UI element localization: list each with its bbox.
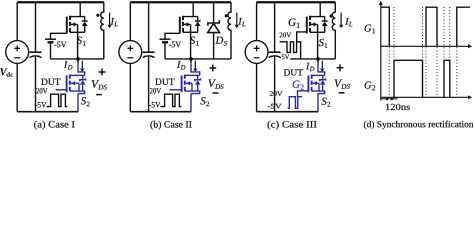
wire Vdc drain branch (a) [16,2,18,111]
label IL (a) [111,18,118,26]
wire DUT source to rail (c) [317,94,319,112]
gate pulse waveform DUT (b) [161,94,182,106]
capacitor C (b) [143,51,155,53]
label S2 (b) [200,97,209,106]
label -5V battery (a) [54,42,66,48]
label S1 (c) [319,39,328,48]
caption (a) [34,121,74,130]
wire S1 gate lead (a) [51,33,67,39]
waveform G1 trace (d) [381,7,470,46]
gate pulse waveform DUT (a) [47,94,68,106]
label VDS (a) [92,80,107,89]
label VDS (c) [335,79,350,88]
S1 body arrow (b) [184,24,191,59]
DUT source wire (c) [312,91,325,94]
wire capacitor branch (b) [148,2,150,111]
caption (b) [150,121,191,130]
axis G2 baseline (d) [381,96,469,98]
label 20V (b) [150,88,161,93]
transistor S1 channel bars (b) [182,16,184,33]
axis G1 baseline (d) [381,45,469,47]
voltage source Vdc (a) [6,41,29,64]
arrow IL current (c) [340,13,342,25]
inductor L (b) [228,2,231,59]
axis vertical (d) [380,4,382,100]
arrow ID current (b) [194,61,196,69]
label G2 (d) [365,82,376,91]
wire DUT drain feed (a) [77,59,79,63]
label -5V gate (a) [35,102,46,107]
wire battery to source (a) [50,43,52,59]
diode S1 body (b) [197,17,199,21]
S1 drain wire (b) [183,2,198,16]
wire capacitor branch (a) [35,2,37,111]
transistor S1 gate bar (a) [66,17,68,34]
wire DUT drain feed (b) [190,59,192,63]
wire Vdc drain branch (b) [129,2,131,111]
label -5V G2 (c) [267,104,281,109]
S1 body arrow (a) [71,24,78,59]
inductor polarity dot (b) [225,14,228,17]
label ID (b) [177,61,185,69]
transistor S1 gate bar (c) [306,17,308,34]
gate pulse waveform G1 (c) [280,42,301,59]
inductor polarity dot (c) [330,14,333,17]
label 20V G2 (c) [270,91,282,96]
transistor S1 channel bars (a) [69,16,71,33]
label -5V battery (b) [169,42,181,48]
label -5V G1 (c) [280,55,290,60]
wire G2 to gate (c) [298,91,309,97]
label 120ns (d) [386,104,410,110]
wire DUT source to rail (b) [190,94,192,112]
DUT body arrow (c) [313,83,319,91]
wire gate lead DUT (b) [170,89,182,91]
voltage source Vdc (c) [245,41,268,64]
transistor DUT S2 channel bars (c) [311,75,313,92]
DUT source wire (b) [185,91,200,94]
label S1 (b) [190,37,199,46]
arrow ID current (a) [81,61,83,69]
label G2 (c) [293,81,304,90]
transistor S1 gate bar (b) [179,17,181,34]
arrow IL current (a) [109,13,111,25]
dotted timing guides (d) [389,7,457,100]
arrow IL current (b) [236,13,238,25]
DUT drain wire (c) [312,74,325,76]
label IL (c) [345,18,352,26]
wire DUT drain feed (c) [317,59,319,63]
label S1 (a) [77,37,86,46]
capacitor C (a) [30,51,42,53]
label minus VDS (a) [96,94,102,96]
Vdc plus sign (c) [254,45,260,51]
wire switch node (a) [51,58,104,60]
wire switch node (b) [165,58,231,60]
diode DUT body (c) [322,75,324,79]
wire capacitor branch (c) [274,2,276,111]
waveform G2 trace (d) [394,60,450,97]
label ID (c) [306,63,314,71]
caption (d) [364,121,473,129]
transistor DUT S2 gate bar (b) [181,75,183,92]
label G1 (c) [289,19,300,28]
wire switch node (c) [290,58,335,60]
transistor DUT S2 gate bar (c) [307,75,309,92]
label plus VDS (b) [209,65,216,72]
transistor DUT S2 gate bar (a) [66,75,68,92]
wire G1 to gate (c) [297,32,307,42]
wire S1 gate lead (b) [165,33,180,39]
diode Ds schottky (b) [208,20,219,26]
S1 drain wire (c) [310,2,325,16]
label Ds (b) [215,37,227,46]
inductor polarity dot (a) [96,14,99,17]
voltage source Vdc (b) [119,41,142,64]
Vdc minus sign (a) [14,57,20,59]
S1 body arrow (c) [311,24,318,59]
wire Vdc drain branch (c) [256,2,258,111]
diode DUT body (b) [197,75,199,79]
DUT body arrow (b) [186,83,192,91]
wire battery to source (b) [164,43,166,59]
arrow ID current (c) [321,61,323,69]
DUT body arrow (a) [71,83,79,91]
node switch junction (b) [189,57,193,61]
wire bottom rail (a) [17,111,78,113]
DUT drain wire (b) [185,74,200,76]
wire bottom rail (c) [257,111,318,113]
capacitor C (c) [269,51,281,53]
label VDS (b) [208,79,223,88]
label plus VDS (a) [99,69,106,76]
dimension arrows 120ns (d) [381,98,386,100]
label minus VDS (c) [339,92,345,94]
gate pulse waveform G2 (c) [288,97,302,109]
S1 drain wire (a) [70,2,85,16]
caption (c) [267,121,316,130]
diode DUT body (a) [82,75,84,79]
transistor DUT S2 channel bars (a) [69,75,71,92]
inductor L (c) [332,2,335,59]
Vdc minus sign (b) [127,57,133,59]
Vdc plus sign (a) [14,45,20,51]
wire Ds branch (b) [213,2,215,59]
label 20V G1 (c) [280,33,292,38]
wire top rail panel (a) [17,1,104,3]
label 20V (a) [36,88,47,93]
S1 source wire (a) [70,31,85,33]
wire top rail panel (c) [257,1,336,3]
wire top rail panel (b) [130,1,231,3]
Vdc minus sign (c) [254,57,260,59]
transistor S1 channel bars (c) [309,16,311,33]
battery -5V (b) [160,38,171,40]
label DUT (a) [41,79,60,85]
label ID (a) [64,61,72,69]
wire gate lead DUT (a) [56,89,67,91]
node switch junction (c) [316,57,320,61]
Vdc plus sign (b) [127,45,133,51]
label IL (b) [238,18,245,26]
inductor L (a) [101,2,104,59]
transistor DUT S2 channel bars (b) [184,75,186,92]
wire DUT source to rail (a) [77,94,79,112]
label S2 (a) [81,97,90,106]
diode S1 body (c) [324,17,326,21]
label DUT (b) [155,79,174,85]
diode S1 body (a) [84,17,86,21]
S1 source wire (b) [183,31,198,33]
label S2 (c) [321,98,330,107]
label minus VDS (b) [213,92,219,94]
S1 source wire (c) [310,31,325,33]
battery -5V (a) [45,38,56,40]
label -5V gate (b) [149,102,160,107]
node switch junction (a) [76,57,80,61]
label plus VDS (c) [337,64,344,71]
label G1 (d) [365,25,376,34]
label Vdc (a) [0,68,13,77]
DUT source wire (a) [70,91,85,94]
label DUT (c) [284,69,303,75]
DUT drain wire (a) [70,74,85,76]
wire bottom rail (b) [130,111,191,113]
